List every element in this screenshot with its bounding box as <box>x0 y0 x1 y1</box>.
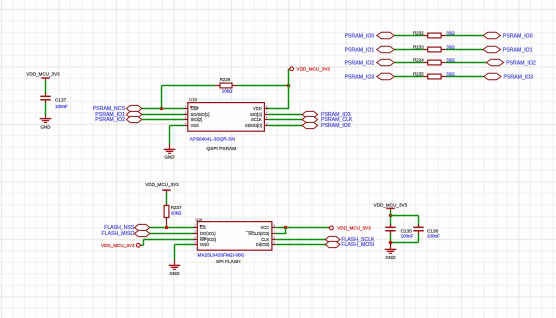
pin VDD (8) <box>253 104 268 111</box>
svg-text:HOLD(IO3): HOLD(IO3) <box>248 231 270 236</box>
node FLASH_SCLK <box>325 236 375 243</box>
svg-text:C137: C137 <box>55 97 67 102</box>
resistor R234 33ohm <box>413 58 455 65</box>
wire <box>390 210 392 215</box>
svg-text:10kΩ: 10kΩ <box>222 88 233 93</box>
node PSRAM_IO0 (right of R232) <box>483 32 533 39</box>
pin DO(IO1) (2) <box>194 229 217 236</box>
node PSRAM_NCS <box>93 105 142 112</box>
svg-text:SCLK: SCLK <box>251 117 262 122</box>
svg-text:VDD: VDD <box>253 106 262 111</box>
svg-text:PSRAM_IO1: PSRAM_IO1 <box>345 47 375 53</box>
pin VSS (4) <box>184 121 199 128</box>
svg-text:SI/SIO[0]: SI/SIO[0] <box>245 123 262 128</box>
svg-text:VDD_MCU_3V3: VDD_MCU_3V3 <box>337 226 371 231</box>
capacitor C136 <box>413 224 440 239</box>
wire R226 left leg <box>162 86 216 109</box>
pin GND (4) <box>194 240 210 247</box>
wire DI out <box>276 244 326 246</box>
pin SI/SIO[0] (5) <box>245 121 268 128</box>
wire SIO[3] out <box>268 114 302 116</box>
svg-text:VDD_MCU_3V3: VDD_MCU_3V3 <box>26 72 60 77</box>
svg-text:R234: R234 <box>413 58 424 63</box>
wire SCLK out <box>268 119 302 121</box>
resistor R237 10k <box>164 205 182 217</box>
svg-text:R237: R237 <box>171 205 182 210</box>
node FLASH_MISO <box>102 230 150 237</box>
pin SCLK (6) <box>251 115 268 122</box>
svg-text:PSRAM_IO3: PSRAM_IO3 <box>345 74 375 80</box>
svg-text:CE#: CE# <box>191 106 200 111</box>
capacitor C135 <box>385 224 413 239</box>
wire VCC out <box>276 227 330 229</box>
power port VDD_MCU_3V3 (PSRAM) <box>289 67 331 73</box>
wire to R232 <box>395 35 424 37</box>
svg-text:VCC: VCC <box>261 225 270 230</box>
node FLASH_NSS <box>104 224 150 231</box>
svg-text:PSRAM_IO3: PSRAM_IO3 <box>504 74 534 80</box>
node PSRAM_IO3 (left of R235) <box>345 73 395 80</box>
node PSRAM_IO0 (left of R232) <box>345 32 395 39</box>
node PSRAM_IO0 <box>302 122 351 129</box>
svg-text:R233: R233 <box>413 45 424 50</box>
svg-text:R226: R226 <box>220 77 231 82</box>
pin HOLD(IO3) (7) <box>246 229 276 236</box>
svg-text:GND: GND <box>164 155 175 160</box>
wire <box>166 192 168 206</box>
wire to R233 <box>395 49 424 51</box>
power flag VDD_MCU_3V3 (C135) <box>374 202 408 210</box>
junction <box>389 241 393 245</box>
wire R237 to FLASH_NSS net <box>166 217 168 227</box>
svg-text:PSRAM_IO0: PSRAM_IO0 <box>321 123 351 129</box>
label QSPI PSRAM <box>206 146 236 152</box>
wire VDD to U16 WP <box>141 240 194 246</box>
svg-text:GND: GND <box>385 255 396 260</box>
svg-text:CS: CS <box>200 225 206 230</box>
resistor R226 <box>215 77 237 93</box>
svg-text:100nF: 100nF <box>401 234 414 239</box>
pin CE# (1) <box>184 104 199 111</box>
node PSRAM_IO3 (right of R235) <box>484 73 534 80</box>
wire to R234 <box>395 62 424 64</box>
svg-text:SPI FLASH: SPI FLASH <box>216 259 241 265</box>
node FLASH_MOSI <box>325 241 374 248</box>
junction <box>165 226 169 230</box>
wire to R235 <box>395 76 424 78</box>
svg-text:PSRAM_IO0: PSRAM_IO0 <box>503 33 533 39</box>
wire <box>446 76 484 78</box>
svg-text:QSPI PSRAM: QSPI PSRAM <box>206 146 236 152</box>
power flag VDD_MCU_3V3 (R237) <box>145 182 179 192</box>
capacitor C137 <box>40 96 68 109</box>
node PSRAM_IO2 (right of R234) <box>486 59 536 66</box>
svg-text:APS6404L-3SQR-SN: APS6404L-3SQR-SN <box>190 136 236 142</box>
svg-text:R232: R232 <box>413 31 424 36</box>
svg-text:PSRAM_IO2: PSRAM_IO2 <box>345 60 375 66</box>
ground (U16) <box>169 265 181 276</box>
svg-text:100nF: 100nF <box>55 104 68 109</box>
wire <box>446 35 484 37</box>
pin CS (1) <box>194 223 206 230</box>
wire FLASH_MISO to U16 DO <box>150 233 194 235</box>
node PSRAM_IO1 <box>95 111 142 118</box>
svg-text:PSRAM_IO2: PSRAM_IO2 <box>506 60 536 66</box>
label SPI FLASH <box>216 259 241 265</box>
pin SIO[3] (7) <box>250 110 268 117</box>
junction <box>287 84 291 88</box>
wire bottom rail <box>391 231 419 242</box>
value label APS6404L-3SQR-SN <box>190 136 236 142</box>
svg-text:PSRAM_IO1: PSRAM_IO1 <box>503 47 533 53</box>
wire FLASH_NSS to U16 CS <box>150 227 194 229</box>
wire VDD vertical <box>264 72 289 109</box>
svg-text:10kΩ: 10kΩ <box>171 211 182 216</box>
pin VCC (8) <box>261 223 276 230</box>
svg-text:VDD_MCU_3V3: VDD_MCU_3V3 <box>297 67 331 72</box>
svg-text:VDD_MCU_3V3: VDD_MCU_3V3 <box>374 202 408 207</box>
pin DI(IO0) (5) <box>256 240 276 247</box>
svg-text:FLASH_MOSI: FLASH_MOSI <box>341 242 374 248</box>
svg-text:SIO[2]: SIO[2] <box>191 117 203 122</box>
node PSRAM_IO1 (left of R233) <box>345 46 395 53</box>
wire PSRAM_NCS to U15 CE# <box>142 108 185 110</box>
junction <box>389 214 393 218</box>
wire <box>446 49 484 51</box>
svg-text:GND: GND <box>40 125 51 130</box>
value label MX25L6433FM2I-08G <box>198 252 245 258</box>
node PSRAM_CLK <box>302 116 353 123</box>
node PSRAM_IO2 (left of R234) <box>345 59 395 66</box>
wire VCC to HOLD jog <box>276 228 287 234</box>
svg-text:MX25L6433FM2I-08G: MX25L6433FM2I-08G <box>198 252 245 258</box>
svg-text:VDD_MCU_3V3: VDD_MCU_3V3 <box>145 182 179 187</box>
ic U16 body <box>196 218 272 250</box>
svg-text:GND: GND <box>200 242 209 247</box>
svg-text:VSS: VSS <box>191 123 200 128</box>
resistor R232 33ohm <box>413 31 455 38</box>
junction <box>284 226 288 230</box>
svg-text:VDD_MCU_3V3: VDD_MCU_3V3 <box>101 243 135 248</box>
svg-text:DI(IO0): DI(IO0) <box>256 242 270 247</box>
svg-text:C135: C135 <box>401 228 413 233</box>
ground (C135/C136) <box>385 249 397 260</box>
node PSRAM_IO1 (right of R233) <box>483 46 533 53</box>
wire CLK out <box>276 239 326 241</box>
svg-text:U16: U16 <box>196 218 203 222</box>
wire R226 to VDD node <box>237 85 289 87</box>
pin WP(IO2) (3) <box>194 235 217 242</box>
power flag VDD_MCU_3V3 (C137) <box>26 72 60 81</box>
wire top rail <box>391 216 419 227</box>
svg-text:GND: GND <box>169 271 180 276</box>
resistor R235 33ohm <box>413 72 455 79</box>
ground (U15) <box>164 149 176 160</box>
ic U15 body <box>188 97 265 131</box>
svg-text:C136: C136 <box>427 228 439 233</box>
wire <box>45 100 47 118</box>
ground (C137) <box>40 118 52 130</box>
wire GND pin to ground <box>175 245 195 265</box>
wire <box>45 80 47 96</box>
pin CLK (6) <box>261 235 275 242</box>
wire <box>446 62 487 64</box>
svg-text:R235: R235 <box>413 72 424 77</box>
svg-text:DO(IO1): DO(IO1) <box>200 231 216 236</box>
wire PSRAM_IO2 to U15 SIO[2] <box>142 119 185 121</box>
pin SIO[2] (3) <box>184 115 202 122</box>
svg-text:100nF: 100nF <box>427 234 440 239</box>
wire VSS to ground <box>170 126 185 149</box>
svg-text:PSRAM_IO0: PSRAM_IO0 <box>345 33 375 39</box>
node PSRAM_IO3 <box>302 111 351 118</box>
svg-text:U15: U15 <box>189 97 197 102</box>
wire SI/SIO[0] out <box>268 125 302 127</box>
svg-text:FLASH_MISO: FLASH_MISO <box>102 231 135 237</box>
resistor R233 33ohm <box>413 45 455 52</box>
wire PSRAM_IO1 to U15 SO/SIO[1] <box>142 114 185 116</box>
pin SO/SIO[1] (2) <box>184 110 209 117</box>
power port VDD_MCU_3V3 (flash VCC) <box>329 226 372 231</box>
node PSRAM_IO2 <box>95 116 142 123</box>
wire to ground <box>390 243 392 249</box>
svg-text:PSRAM_IO2: PSRAM_IO2 <box>95 117 125 123</box>
junction <box>160 107 164 111</box>
power port VDD_MCU_3V3 (WP) <box>101 243 142 248</box>
